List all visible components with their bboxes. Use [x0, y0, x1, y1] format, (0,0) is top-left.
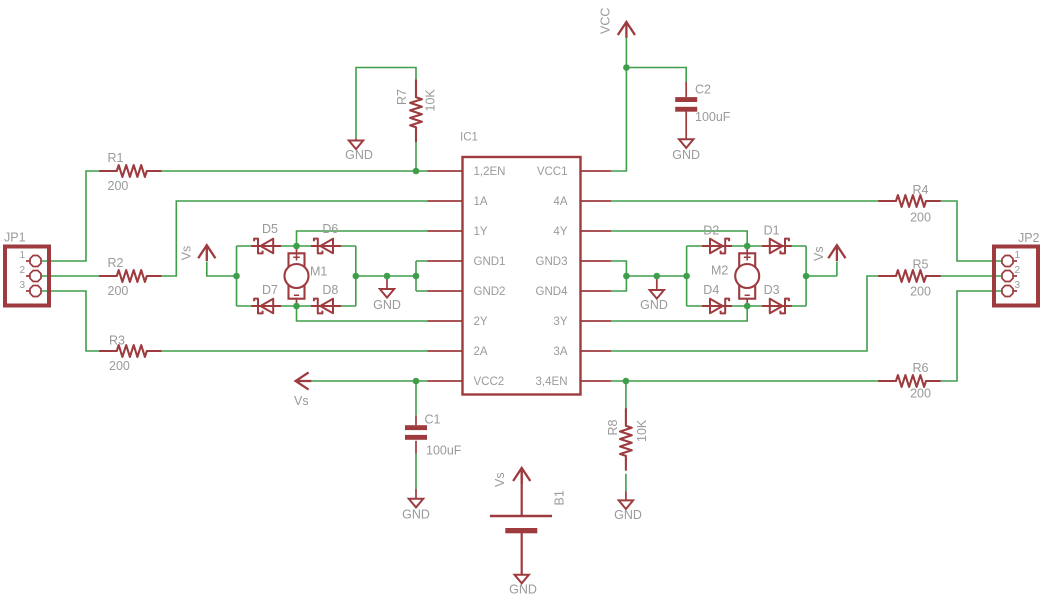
wire net 3A: IC pin 3A to R5 left	[611, 276, 880, 351]
wire M1 bridge right rail	[355, 246, 357, 306]
wire net Vs: VCC2 row to C1 and supply arrow	[311, 381, 427, 489]
junction M2 top node	[744, 243, 751, 250]
supply symbol Vs (VCC2, pointing left)	[296, 372, 312, 389]
svg-text:3Y: 3Y	[553, 316, 567, 328]
wire net 1A: R2 right up to IC pin 1A	[161, 201, 428, 276]
svg-text:1Y: 1Y	[474, 226, 488, 238]
wire M2 bridge top rail segments	[687, 245, 807, 247]
svg-text:D4: D4	[703, 283, 719, 297]
svg-text:IC1: IC1	[460, 132, 478, 144]
svg-text:M2: M2	[711, 264, 728, 278]
svg-text:GND3: GND3	[536, 256, 568, 268]
svg-text:1: 1	[1015, 250, 1021, 261]
svg-text:GND: GND	[373, 298, 401, 312]
svg-text:4A: 4A	[553, 196, 567, 208]
ground symbol (R8)	[619, 491, 633, 509]
svg-text:R7: R7	[395, 89, 409, 105]
junction R7/1,2EN node	[413, 168, 420, 175]
svg-text:100uF: 100uF	[426, 444, 462, 458]
wire M1 bridge top rail segments	[237, 245, 356, 247]
wire net VCC: VCC symbol to VCC1 and C2	[611, 37, 686, 171]
svg-text:GND2: GND2	[474, 286, 506, 298]
wire net 4A: IC pin 4A to R4 and JP2 pin1	[611, 201, 1002, 261]
svg-text:JP2: JP2	[1018, 231, 1040, 245]
junction VCC/C2 node	[623, 64, 630, 71]
svg-text:GND: GND	[345, 148, 373, 162]
wire net 1,2EN: R7 bottom vertical	[415, 142, 417, 171]
diode D7	[251, 299, 281, 314]
diode D8	[311, 299, 341, 314]
junction M1 bottom node	[293, 303, 300, 310]
svg-text:R4: R4	[913, 183, 929, 197]
svg-text:R5: R5	[913, 258, 929, 272]
svg-text:D6: D6	[322, 222, 338, 236]
motor M1	[285, 246, 309, 306]
svg-text:200: 200	[109, 359, 130, 373]
svg-text:2: 2	[1015, 265, 1021, 276]
svg-text:200: 200	[108, 284, 129, 298]
svg-text:Vs: Vs	[294, 394, 309, 408]
resistor R8	[620, 409, 632, 470]
svg-text:200: 200	[910, 211, 931, 225]
ground symbol (M2 bridge)	[650, 276, 664, 299]
svg-text:VCC2: VCC2	[474, 376, 505, 388]
wire M1 bridge left rail	[236, 246, 238, 306]
svg-text:3,4EN: 3,4EN	[536, 376, 568, 388]
svg-text:4Y: 4Y	[553, 226, 567, 238]
ground symbol (C2)	[679, 139, 693, 148]
motor M2	[735, 246, 759, 306]
junction right GND node	[654, 273, 661, 280]
ground symbol (M1 bridge)	[380, 276, 394, 298]
diode D4	[702, 299, 732, 314]
junction M1 right rail node	[353, 273, 360, 280]
svg-text:3: 3	[19, 280, 25, 291]
svg-text:10K: 10K	[424, 89, 438, 112]
op-amp IC1 body	[463, 157, 581, 395]
pin names IC1 right column	[536, 166, 569, 388]
wire net N$6: R6 right to JP2 pin3	[940, 291, 1002, 381]
svg-text:3A: 3A	[553, 346, 567, 358]
svg-text:2: 2	[19, 265, 25, 276]
junction M1 top node	[293, 243, 300, 250]
resistor R4	[879, 195, 940, 207]
resistor R7	[410, 80, 422, 141]
resistor R5	[879, 270, 940, 282]
svg-text:200: 200	[910, 387, 931, 401]
svg-text:Vs: Vs	[180, 246, 194, 261]
wire net GND: M1 right rail to GND1/GND2	[356, 261, 428, 291]
diode D5	[251, 239, 281, 254]
junction M2 left rail node	[683, 273, 690, 280]
junction M2 right rail node	[803, 273, 810, 280]
wire M1 bridge bottom rail segments	[237, 305, 356, 307]
resistor R1	[100, 165, 161, 177]
junction M2 bottom node	[744, 303, 751, 310]
svg-text:JP1: JP1	[4, 231, 26, 245]
connector JP2	[994, 247, 1038, 306]
junction 3,4EN/R8 node	[623, 378, 630, 385]
diode D2	[702, 239, 732, 254]
wire net GND: GND3/GND4 to M2 left rail	[611, 261, 687, 291]
svg-text:2A: 2A	[474, 346, 488, 358]
IC U1 pin stubs right (VCC1 4A 4Y GND3 GND4 3Y 3A 3,4EN)	[581, 171, 612, 381]
svg-text:200: 200	[108, 179, 129, 193]
wire net 4Y: M2 top node to IC pin 4Y	[611, 231, 747, 246]
wire M2 bridge left rail	[686, 246, 688, 306]
ground symbol (C1)	[409, 499, 423, 508]
svg-text:D2: D2	[703, 224, 719, 238]
supply symbol Vs (battery B1)	[513, 468, 530, 484]
svg-text:R3: R3	[109, 334, 125, 348]
junction left GND node	[384, 273, 391, 280]
pin names IC1 left column	[474, 166, 506, 388]
wire M2 bridge bottom rail segments	[687, 305, 807, 307]
capacitor C2	[675, 82, 697, 139]
svg-text:200: 200	[910, 285, 931, 299]
resistor R2	[100, 270, 161, 282]
connector JP1	[5, 247, 49, 306]
supply symbol Vs (right bridge)	[828, 245, 845, 261]
diode D3	[762, 299, 792, 314]
resistor R6	[879, 375, 940, 387]
diode D1	[762, 239, 792, 254]
svg-text:GND: GND	[402, 508, 430, 522]
ground symbol (R7 top net)	[349, 139, 363, 150]
IC U1 pin stubs left (1,2EN 1A 1Y GND1 GND2 2Y 2A VCC2)	[428, 171, 463, 381]
wire net R7 top to corner	[356, 68, 416, 139]
svg-text:D1: D1	[764, 224, 780, 238]
wire net N$5: R5 right to JP2 pin2	[940, 275, 1002, 277]
svg-text:C2: C2	[695, 83, 711, 97]
ground symbol (B1)	[515, 575, 529, 584]
svg-text:VCC1: VCC1	[537, 166, 568, 178]
supply symbol Vs (left bridge)	[198, 245, 215, 261]
wire net 3,4EN: IC pin 3,4EN to R8 and R6	[611, 381, 880, 491]
wire net N$1: JP1 pin1 to R1 left	[42, 171, 100, 261]
supply symbol VCC	[618, 22, 635, 38]
svg-text:R6: R6	[913, 361, 929, 375]
svg-text:D3: D3	[764, 283, 780, 297]
wire net Vs right: M2 right rail to supply arrow	[806, 262, 837, 277]
junction GND1/GND2 node	[413, 273, 420, 280]
svg-text:3: 3	[1015, 280, 1021, 291]
svg-text:GND: GND	[640, 298, 668, 312]
svg-text:100uF: 100uF	[695, 110, 731, 124]
wire net 3Y: M2 bottom node to IC pin 3Y	[611, 306, 747, 321]
pin numbers JP2	[1015, 250, 1021, 291]
wire net N$3: JP1 pin3 to R3 left	[42, 291, 100, 351]
svg-text:1A: 1A	[474, 196, 488, 208]
svg-text:GND: GND	[614, 508, 642, 522]
svg-text:D8: D8	[322, 283, 338, 297]
svg-text:1,2EN: 1,2EN	[474, 166, 506, 178]
junction GND3/GND4 node	[623, 273, 630, 280]
svg-text:D5: D5	[262, 222, 278, 236]
svg-text:M1: M1	[310, 265, 327, 279]
svg-text:B1: B1	[553, 490, 567, 505]
svg-text:2Y: 2Y	[474, 316, 488, 328]
svg-text:GND: GND	[672, 148, 700, 162]
svg-text:Vs: Vs	[493, 472, 507, 487]
svg-text:1: 1	[19, 250, 25, 261]
svg-text:10K: 10K	[635, 419, 649, 442]
svg-text:GND1: GND1	[474, 256, 506, 268]
junction VCC2/C1 node	[413, 378, 420, 385]
svg-text:GND: GND	[509, 583, 537, 597]
svg-text:Vs: Vs	[812, 246, 826, 261]
junction M1 left rail node	[233, 273, 240, 280]
wire net Vs left: supply arrow to left rail	[207, 262, 237, 277]
svg-text:GND4: GND4	[536, 286, 569, 298]
svg-text:C1: C1	[425, 413, 441, 427]
svg-text:R8: R8	[606, 419, 620, 435]
pin numbers JP1	[19, 250, 25, 291]
wire net 2A: R3 right to IC pin 2A	[161, 350, 428, 352]
capacitor C1	[405, 415, 427, 499]
wire net 1Y: M1 top node to IC pin 1Y	[297, 231, 428, 246]
diode D6	[311, 239, 341, 254]
svg-text:R2: R2	[108, 256, 124, 270]
wire M2 bridge right rail	[805, 246, 807, 306]
resistor R3	[100, 345, 161, 357]
wire net 2Y: M1 bottom node to IC pin 2Y	[297, 306, 428, 321]
wire net N$2: JP1 pin2 to R2 left	[42, 275, 100, 277]
svg-text:R1: R1	[108, 151, 124, 165]
svg-text:VCC: VCC	[599, 8, 613, 34]
svg-text:D7: D7	[262, 283, 278, 297]
wire net 1,2EN: R1 right to IC pin 1,2EN	[161, 170, 428, 172]
battery B1	[490, 472, 552, 575]
